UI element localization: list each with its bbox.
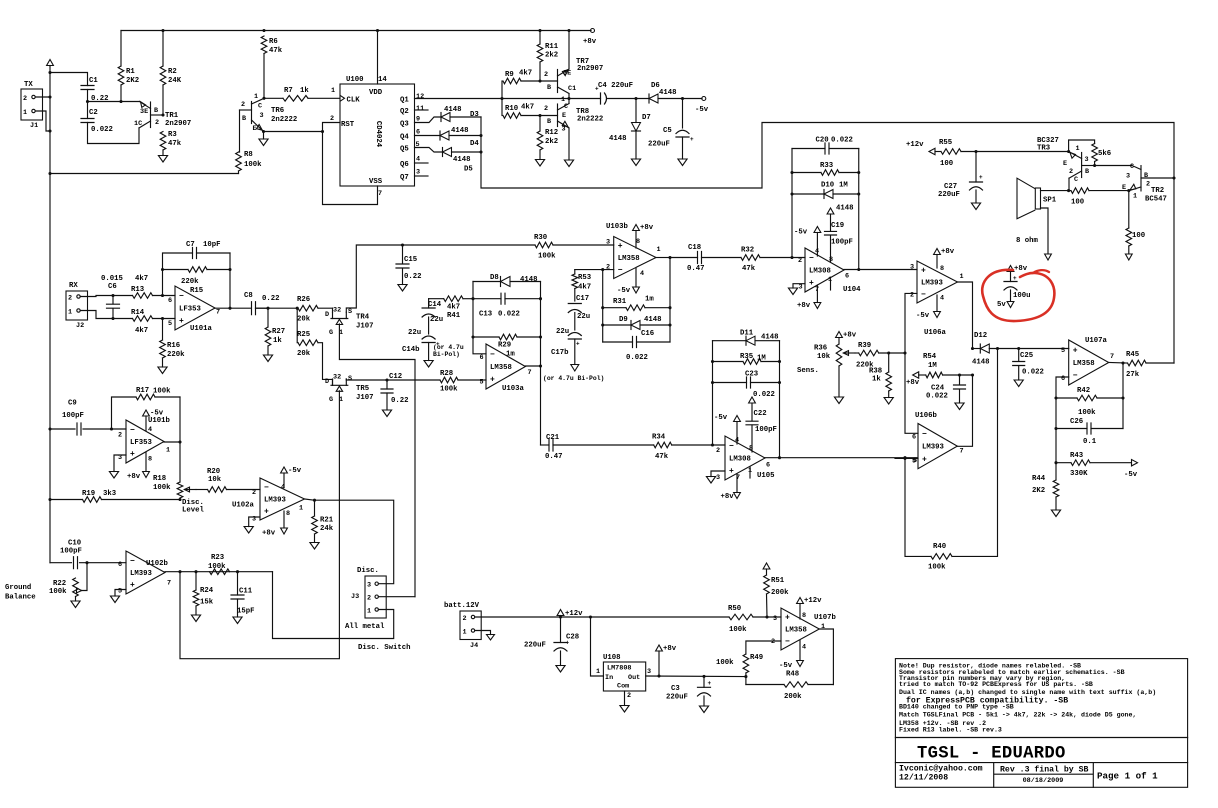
- op-amp U107b LM358: [781, 608, 819, 650]
- svg-text:8 ohm: 8 ohm: [1016, 237, 1039, 245]
- svg-text:4: 4: [940, 295, 944, 303]
- svg-text:0.1: 0.1: [1083, 438, 1097, 446]
- svg-text:2: 2: [118, 432, 122, 440]
- node +8v arrow: [658, 651, 660, 676]
- svg-text:TGSL - EDUARDO: TGSL - EDUARDO: [917, 745, 1066, 764]
- resistor R34 47k: [654, 442, 672, 448]
- resistor R51 200k: [763, 563, 770, 569]
- svg-text:100k: 100k: [729, 626, 747, 634]
- wire U108 pin2 ground: [624, 691, 626, 706]
- diode D11 4148: [713, 340, 747, 342]
- svg-text:CD4024: CD4024: [374, 121, 382, 148]
- svg-text:2: 2: [606, 264, 610, 272]
- svg-text:-5v: -5v: [714, 414, 728, 422]
- svg-text:R11: R11: [545, 43, 559, 51]
- svg-text:7: 7: [528, 369, 532, 377]
- potentiometer R36 Sens 10k: [838, 338, 840, 345]
- svg-text:C17b: C17b: [551, 349, 569, 357]
- svg-text:8: 8: [940, 265, 944, 273]
- wire collector node: [502, 98, 569, 100]
- svg-text:6: 6: [118, 561, 122, 569]
- svg-text:R43: R43: [1070, 452, 1084, 460]
- resistor R15 220k: [188, 267, 207, 273]
- svg-text:7: 7: [167, 580, 171, 588]
- svg-text:+8v: +8v: [797, 302, 811, 310]
- svg-text:2: 2: [1146, 181, 1150, 189]
- svg-text:R49: R49: [750, 654, 763, 662]
- svg-text:Fixed R13 label. -SB rev.3: Fixed R13 label. -SB rev.3: [899, 727, 1002, 734]
- svg-text:6: 6: [1061, 375, 1065, 383]
- wire U101b pin3 ground: [114, 455, 126, 472]
- svg-text:U100: U100: [346, 76, 364, 84]
- svg-text:5: 5: [168, 320, 172, 328]
- svg-text:10k: 10k: [817, 353, 831, 361]
- capacitor C10 100pF: [50, 562, 72, 564]
- ground C3: [703, 696, 705, 706]
- node U105 +8v: [736, 474, 738, 493]
- node U105 -5v: [736, 422, 738, 445]
- node +8v terminal: [591, 29, 595, 33]
- svg-text:Disc.: Disc.: [357, 567, 379, 575]
- node U104 +8v: [816, 285, 818, 303]
- wire U103a pin6: [473, 282, 486, 354]
- wire U106a output: [958, 282, 973, 349]
- svg-text:2: 2: [463, 615, 467, 623]
- wire speaker top: [1041, 190, 1069, 192]
- svg-text:R39: R39: [858, 342, 871, 350]
- svg-text:R29: R29: [498, 342, 511, 350]
- resistor R32 47k: [741, 255, 760, 261]
- svg-text:47k: 47k: [269, 47, 283, 55]
- svg-text:3: 3: [562, 126, 566, 134]
- svg-text:Com: Com: [617, 683, 629, 691]
- svg-text:−: −: [1073, 372, 1078, 381]
- svg-text:LM393: LM393: [921, 280, 944, 288]
- wire output feedback rail: [669, 258, 671, 343]
- wire D4 to bus: [449, 135, 481, 137]
- svg-text:C3: C3: [671, 685, 680, 693]
- svg-text:−: −: [179, 292, 184, 301]
- diode D5 4148: [442, 148, 444, 157]
- svg-text:1: 1: [596, 668, 600, 676]
- connector J2 RX: [66, 291, 88, 320]
- svg-text:−: −: [130, 426, 135, 435]
- ground TR6 emitter: [263, 132, 265, 140]
- svg-text:R42: R42: [1077, 387, 1090, 395]
- wire U106a pin2 rail: [905, 293, 918, 433]
- svg-text:TR1: TR1: [165, 112, 179, 120]
- svg-text:5: 5: [480, 379, 484, 387]
- capacitor 100u: [1007, 266, 1014, 272]
- capacitor C6 0.015: [112, 296, 114, 305]
- ground R12: [535, 160, 544, 167]
- svg-text:C10: C10: [68, 540, 81, 548]
- svg-text:2n2907: 2n2907: [577, 65, 603, 73]
- svg-text:+: +: [809, 279, 814, 288]
- svg-text:B: B: [1144, 172, 1148, 180]
- capacitor C21 0.47: [541, 444, 550, 446]
- svg-text:200k: 200k: [784, 693, 802, 701]
- svg-text:3: 3: [416, 169, 420, 177]
- wire C1 to node: [87, 90, 89, 102]
- svg-text:15pF: 15pF: [237, 608, 255, 616]
- wire U101b output: [164, 441, 180, 443]
- svg-text:3: 3: [367, 582, 371, 590]
- svg-text:4k7: 4k7: [521, 104, 534, 112]
- resistor R12 2k2: [539, 116, 541, 132]
- resistor R27 1k: [267, 308, 269, 327]
- wire U104 feedback left rail: [791, 149, 793, 258]
- op-amp U106b LM393: [918, 424, 957, 469]
- svg-text:4148: 4148: [836, 205, 854, 213]
- svg-text:U108: U108: [603, 654, 621, 662]
- resistor R50 100k: [729, 614, 753, 620]
- svg-text:Ground: Ground: [5, 584, 31, 592]
- svg-text:+: +: [576, 341, 580, 348]
- wire D3 to bus: [450, 116, 481, 118]
- svg-text:100k: 100k: [928, 564, 946, 572]
- svg-text:100k: 100k: [538, 253, 556, 261]
- capacitor C15 0.22: [402, 245, 404, 264]
- wire TR6 emitter to RST loop: [264, 131, 323, 133]
- svg-text:C19: C19: [831, 222, 844, 230]
- svg-text:22u: 22u: [556, 328, 569, 336]
- svg-text:R13: R13: [131, 286, 145, 294]
- resistor R7 1k: [264, 97, 283, 99]
- svg-text:08/18/2009: 08/18/2009: [1023, 777, 1064, 785]
- svg-text:2K2: 2K2: [1032, 487, 1045, 495]
- node R43 -5v arrow: [1132, 460, 1138, 466]
- IC U100 CD4024: [340, 84, 415, 186]
- capacitor C9 100pF: [50, 428, 75, 430]
- svg-text:220uF: 220uF: [938, 191, 960, 199]
- svg-text:+8v: +8v: [262, 530, 276, 538]
- wire branch to C1: [50, 73, 88, 86]
- svg-text:R10: R10: [505, 105, 518, 113]
- node U102a -5v: [283, 473, 285, 487]
- svg-text:20k: 20k: [297, 350, 311, 358]
- svg-text:U101b: U101b: [148, 417, 171, 425]
- svg-text:U105: U105: [757, 472, 775, 480]
- svg-text:+8v: +8v: [663, 645, 677, 653]
- capacitor C3 220uF: [703, 676, 705, 687]
- capacitor C24 0.022: [959, 375, 961, 385]
- svg-text:2: 2: [910, 292, 914, 300]
- connector J3 disc switch: [365, 576, 386, 618]
- svg-text:R19: R19: [82, 490, 95, 498]
- svg-text:3: 3: [716, 474, 720, 482]
- wire J1 pin1: [35, 111, 50, 131]
- wire U104 pin1 stub: [830, 279, 832, 290]
- wire U105 output: [765, 457, 917, 459]
- wire U101a output: [215, 307, 251, 309]
- node C22 arrow: [751, 404, 753, 422]
- svg-text:TR4: TR4: [356, 314, 370, 322]
- svg-text:100pF: 100pF: [831, 239, 853, 247]
- svg-text:0.022: 0.022: [926, 393, 948, 401]
- ground C27: [975, 190, 977, 203]
- resistor R45 27k: [1128, 360, 1147, 366]
- svg-text:4148: 4148: [451, 127, 469, 135]
- wire D8 to right rail: [510, 281, 541, 283]
- svg-text:B: B: [547, 84, 551, 92]
- svg-text:1M: 1M: [757, 355, 766, 363]
- capacitor C16 0.022: [603, 341, 633, 343]
- wire C7 R15 right rail: [229, 253, 231, 308]
- resistor R10 4k7: [503, 113, 521, 119]
- node U102a +8v: [283, 511, 285, 528]
- wire U102b output: [165, 571, 273, 573]
- svg-text:100: 100: [940, 160, 953, 168]
- svg-text:TX: TX: [24, 81, 33, 89]
- svg-text:C1: C1: [89, 77, 98, 85]
- svg-text:100k: 100k: [1078, 409, 1096, 417]
- svg-text:−: −: [785, 637, 790, 646]
- svg-text:R1: R1: [126, 68, 135, 76]
- op-amp U106a LM393: [917, 261, 958, 303]
- wire Q7 stub: [415, 175, 429, 177]
- node U107b +12v: [799, 604, 801, 620]
- svg-text:U102b: U102b: [146, 560, 169, 568]
- svg-text:R54: R54: [923, 353, 937, 361]
- svg-text:Disc. Switch: Disc. Switch: [358, 644, 411, 652]
- resistor R38 1k: [888, 353, 890, 372]
- wire Q3 to D3: [415, 117, 442, 123]
- svg-text:100k: 100k: [244, 161, 262, 169]
- svg-text:+: +: [690, 136, 694, 143]
- capacitor C19 100pF: [830, 236, 832, 263]
- svg-text:C28: C28: [566, 634, 579, 642]
- svg-text:C14: C14: [428, 301, 442, 309]
- svg-text:J4: J4: [470, 642, 478, 650]
- svg-text:100k: 100k: [208, 563, 226, 571]
- resistor R25 20k: [296, 308, 299, 343]
- svg-text:+8v: +8v: [721, 493, 735, 501]
- svg-text:TR3: TR3: [1037, 145, 1051, 153]
- svg-text:4: 4: [281, 484, 285, 492]
- connector J4 batt.12V: [460, 611, 481, 640]
- svg-text:1: 1: [23, 109, 27, 117]
- op-amp U102a LM393: [260, 478, 305, 520]
- svg-text:+: +: [618, 242, 623, 251]
- resistor R26 20k: [298, 305, 318, 311]
- svg-text:D8: D8: [490, 274, 499, 282]
- svg-text:−: −: [921, 290, 926, 299]
- wire U103a output: [525, 365, 540, 367]
- svg-text:220uF: 220uF: [524, 642, 546, 650]
- svg-text:B: B: [1085, 168, 1089, 176]
- svg-text:0.47: 0.47: [687, 265, 705, 273]
- svg-text:47k: 47k: [168, 140, 182, 148]
- svg-text:C: C: [1130, 163, 1134, 171]
- wire TR4 source to filter: [346, 245, 535, 312]
- svg-text:+12v: +12v: [804, 597, 822, 605]
- diode D4 4148: [439, 131, 441, 140]
- svg-text:100: 100: [1071, 199, 1084, 207]
- svg-text:100k: 100k: [49, 588, 67, 596]
- svg-text:Q1: Q1: [400, 97, 409, 105]
- svg-text:R17: R17: [136, 387, 149, 395]
- svg-text:+: +: [785, 614, 790, 623]
- wire D12 to U107a: [989, 348, 1068, 350]
- wire U106b pin5: [895, 457, 918, 459]
- svg-text:8: 8: [636, 238, 640, 246]
- wire Q4 to D4: [415, 135, 441, 137]
- svg-text:4148: 4148: [644, 316, 662, 324]
- wire output to C21: [540, 366, 542, 445]
- svg-text:U106b: U106b: [915, 412, 938, 420]
- resistor R54 1M: [913, 372, 919, 378]
- svg-text:+: +: [922, 455, 927, 464]
- svg-text:-5v: -5v: [779, 662, 793, 670]
- resistor R39 220k: [855, 352, 859, 354]
- resistor R30 100k: [535, 242, 553, 248]
- wire U103b feedback left rail: [602, 270, 604, 342]
- resistor 5k6 TR3: [1069, 140, 1095, 152]
- capacitor C8 0.22: [252, 302, 256, 315]
- svg-text:−: −: [618, 266, 623, 275]
- svg-text:2: 2: [23, 95, 27, 103]
- svg-text:8: 8: [802, 612, 806, 620]
- wire D6 to -5v: [658, 98, 702, 100]
- svg-text:R7: R7: [284, 87, 293, 95]
- svg-text:1: 1: [821, 623, 825, 631]
- resistor R11 2k2: [539, 31, 541, 45]
- svg-text:RST: RST: [341, 121, 355, 129]
- svg-text:R28: R28: [440, 370, 453, 378]
- svg-text:Q5: Q5: [400, 146, 409, 154]
- svg-text:R22: R22: [53, 580, 66, 588]
- IC U108 LM7808: [603, 662, 645, 691]
- svg-text:4148: 4148: [520, 276, 538, 284]
- op-amp U103a LM358: [486, 344, 525, 389]
- op-amp U101b LF353: [126, 420, 164, 463]
- svg-text:U103b: U103b: [606, 223, 629, 231]
- svg-text:-5v: -5v: [150, 410, 164, 418]
- svg-text:+: +: [921, 267, 926, 276]
- diode D10 1M 4148: [792, 193, 824, 195]
- svg-text:R35: R35: [740, 353, 753, 361]
- svg-text:4148: 4148: [453, 156, 471, 164]
- wire U107a pin6 rail: [1056, 377, 1069, 463]
- svg-text:32: 32: [333, 307, 341, 315]
- transistor TR7 2n2907: [557, 70, 559, 93]
- svg-text:C25: C25: [1020, 352, 1033, 360]
- svg-text:14: 14: [378, 76, 387, 84]
- svg-text:C26: C26: [1070, 418, 1083, 426]
- svg-text:D4: D4: [470, 140, 479, 148]
- svg-text:100u: 100u: [1013, 292, 1031, 300]
- svg-text:LM393: LM393: [130, 570, 153, 578]
- svg-text:3: 3: [647, 668, 651, 676]
- svg-text:G: G: [329, 329, 333, 337]
- svg-text:D3: D3: [470, 111, 479, 119]
- svg-text:R3: R3: [168, 131, 177, 139]
- resistor R20 10k: [196, 489, 208, 491]
- svg-text:C2: C2: [89, 109, 98, 117]
- wire U106b output: [957, 375, 972, 446]
- svg-text:R41: R41: [447, 312, 461, 320]
- svg-text:6: 6: [766, 462, 770, 470]
- svg-text:0.22: 0.22: [404, 273, 422, 281]
- wire TR3 base to TR2: [1095, 165, 1132, 167]
- svg-text:R2: R2: [168, 68, 177, 76]
- svg-text:D11: D11: [740, 330, 754, 338]
- svg-text:R21: R21: [320, 517, 334, 525]
- svg-text:B: B: [547, 118, 551, 126]
- svg-text:15k: 15k: [200, 599, 214, 607]
- capacitor C26 0.1: [1056, 428, 1087, 430]
- wire Q5 to D5: [415, 148, 443, 153]
- svg-text:+: +: [979, 174, 983, 181]
- resistor R55 100: [935, 151, 941, 153]
- capacitor C1 0.22: [81, 86, 94, 90]
- svg-text:for ExpressPCB compatibility.: for ExpressPCB compatibility. -SB: [906, 696, 1068, 706]
- svg-text:Q6: Q6: [400, 161, 409, 169]
- svg-text:2: 2: [155, 119, 159, 127]
- svg-text:Q3: Q3: [400, 121, 409, 129]
- svg-text:LM7808: LM7808: [607, 665, 631, 673]
- wire Q2 stub: [415, 109, 429, 111]
- capacitor C25 0.022: [1018, 349, 1020, 362]
- svg-text:R48: R48: [786, 671, 799, 679]
- svg-text:0.022: 0.022: [1022, 369, 1044, 377]
- svg-text:220uF: 220uF: [666, 694, 688, 702]
- svg-text:8: 8: [286, 510, 290, 518]
- svg-text:U104: U104: [843, 286, 861, 294]
- svg-text:1C: 1C: [134, 120, 142, 128]
- resistor R35 1M: [713, 361, 744, 363]
- wire U105 feedback left rail: [712, 341, 714, 445]
- svg-text:6: 6: [912, 434, 916, 442]
- wire U102a pin3 ground: [249, 517, 260, 527]
- resistor R33: [792, 172, 821, 174]
- wire U104 feedback right rail: [858, 149, 860, 270]
- ground C15: [398, 285, 407, 292]
- wire U107a output: [1109, 362, 1128, 365]
- svg-text:4148: 4148: [609, 135, 627, 143]
- svg-text:Rev .3 final by SB: Rev .3 final by SB: [1000, 765, 1089, 775]
- svg-text:100pF: 100pF: [60, 548, 82, 556]
- svg-text:0.022: 0.022: [91, 126, 113, 134]
- resistor R3 47k: [160, 132, 166, 151]
- resistor R6 47k: [261, 36, 267, 54]
- resistor R44 2K2: [1055, 463, 1057, 480]
- node +12v arrow: [560, 616, 562, 618]
- svg-text:3: 3: [260, 112, 264, 120]
- wire VSS pin7 RST loop: [323, 123, 378, 205]
- svg-text:−: −: [809, 254, 814, 263]
- svg-text:S: S: [348, 308, 352, 316]
- svg-text:Balance: Balance: [5, 594, 36, 602]
- ground C25: [1014, 380, 1023, 387]
- svg-text:24K: 24K: [168, 77, 182, 85]
- svg-text:LM358: LM358: [490, 364, 512, 372]
- svg-text:+8v: +8v: [583, 38, 597, 46]
- wire J3 pin2: [378, 596, 415, 598]
- svg-text:1k: 1k: [273, 337, 282, 345]
- wire bottom feedback: [50, 173, 239, 175]
- svg-text:11: 11: [416, 105, 424, 113]
- ground R21: [310, 543, 319, 550]
- svg-text:200k: 200k: [771, 589, 789, 597]
- ground TR1 R3: [158, 156, 167, 163]
- resistor R40 100k loop: [905, 458, 931, 556]
- node C17b terminal arrow: [574, 339, 576, 365]
- capacitor C5 220uF: [682, 99, 684, 129]
- svg-text:(or 4.7u Bi-Pol): (or 4.7u Bi-Pol): [543, 375, 604, 382]
- capacitor C27 220uF: [975, 152, 977, 183]
